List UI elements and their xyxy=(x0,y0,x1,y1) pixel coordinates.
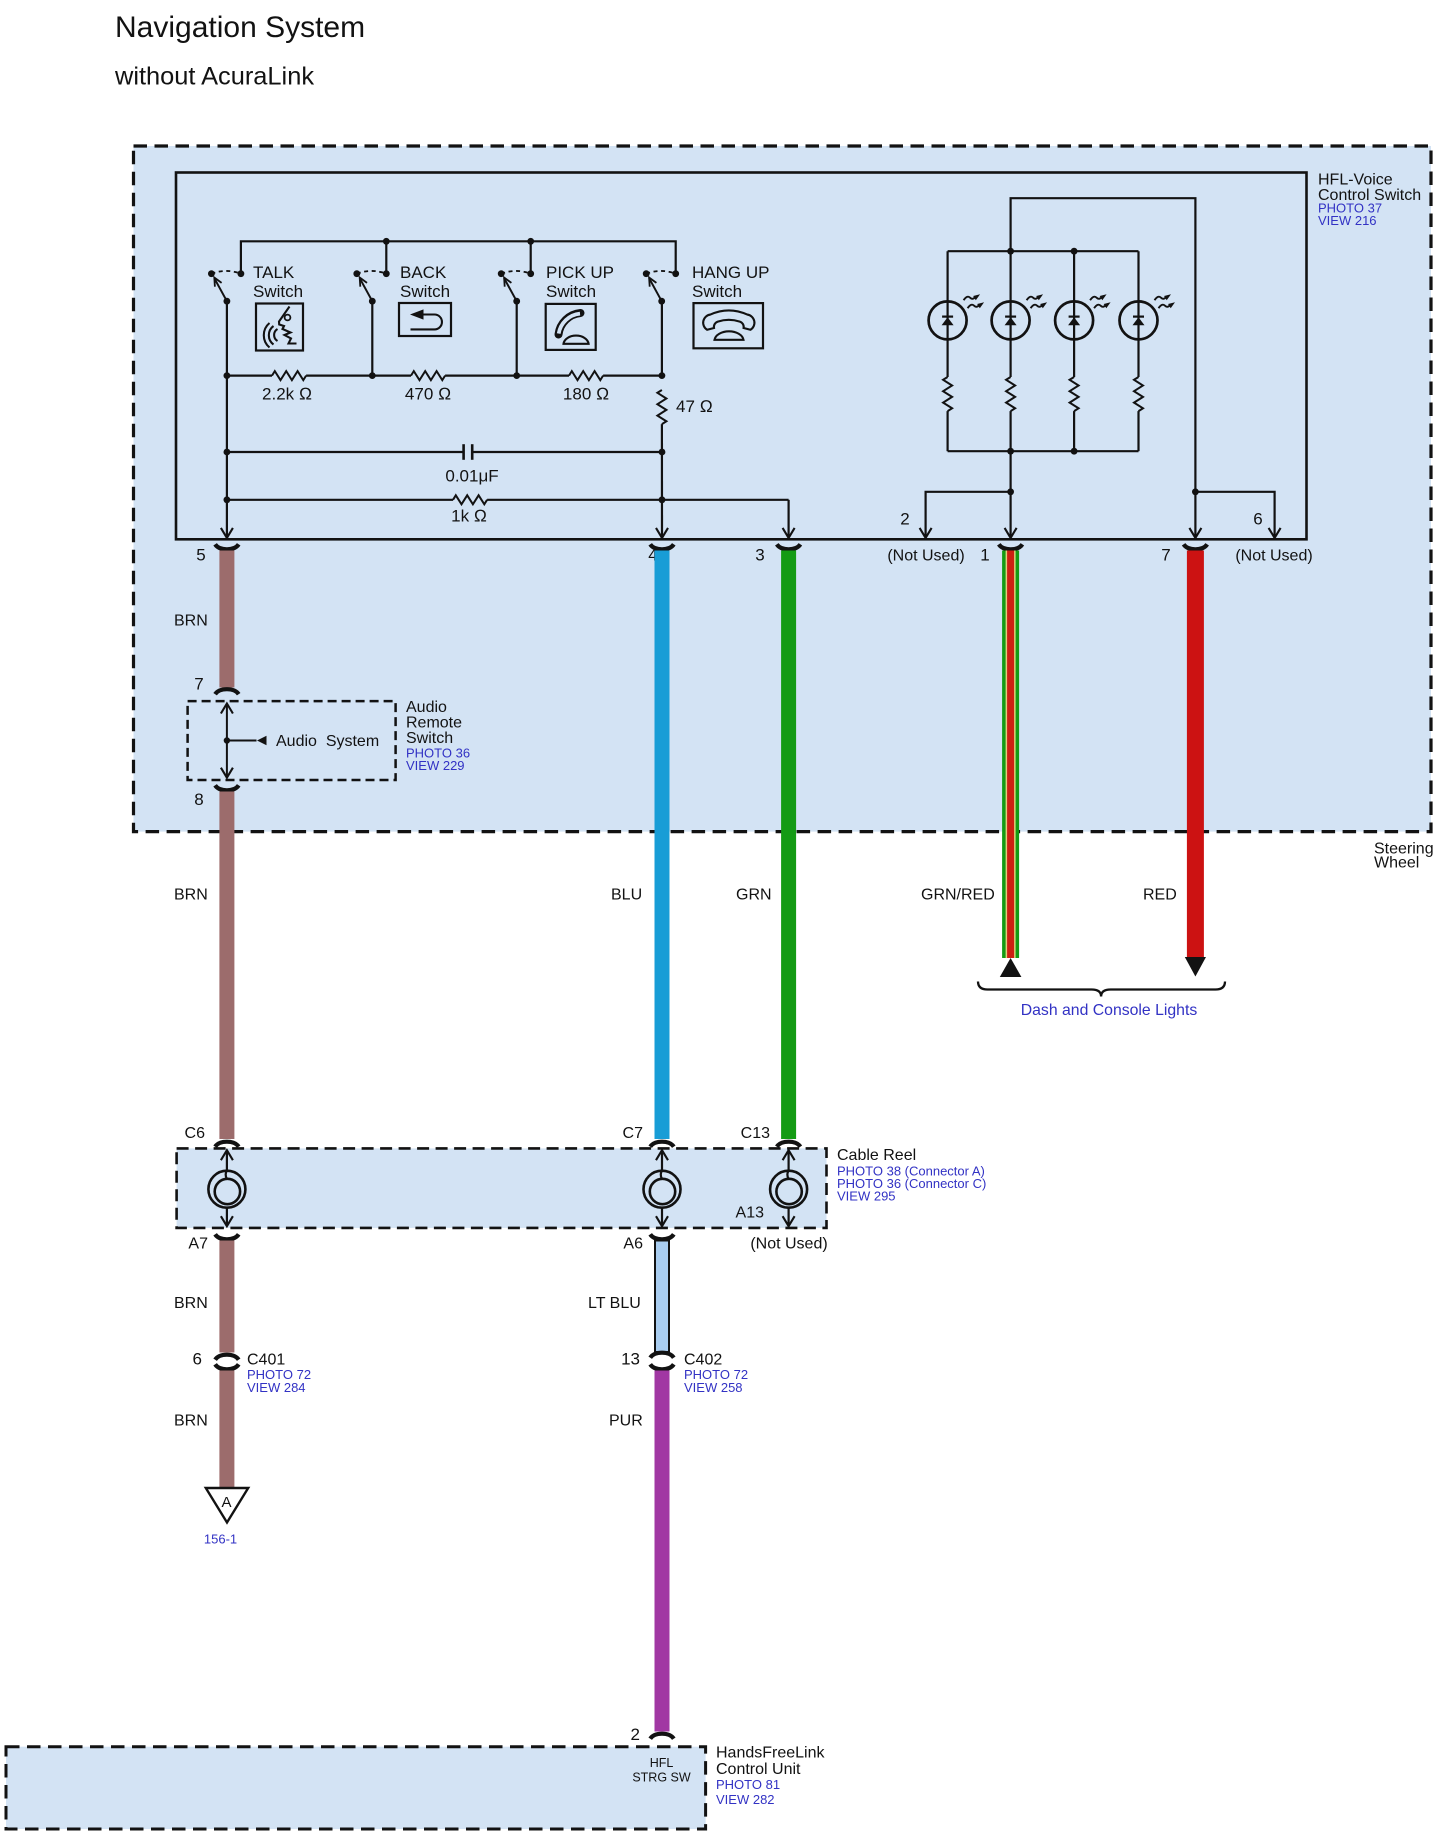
svg-text:8: 8 xyxy=(194,790,203,809)
wire BRN segment 3 xyxy=(219,1241,234,1353)
svg-text:TALK: TALK xyxy=(253,263,295,282)
svg-text:47 Ω: 47 Ω xyxy=(676,397,713,416)
wire LT BLU xyxy=(655,1241,669,1353)
wire pin4 column xyxy=(661,424,663,537)
wire LED feed top xyxy=(1011,198,1196,537)
connector cap A7 xyxy=(215,1234,239,1239)
svg-text:C13: C13 xyxy=(741,1125,770,1142)
connector cap pin2 HFL xyxy=(650,1734,674,1739)
svg-text:C401: C401 xyxy=(247,1352,285,1369)
svg-text:PHOTO 81: PHOTO 81 xyxy=(716,1777,780,1792)
svg-text:Audio System: Audio System xyxy=(276,733,379,750)
svg-text:C402: C402 xyxy=(684,1352,722,1369)
svg-text:BLU: BLU xyxy=(611,887,642,904)
wire PUR xyxy=(655,1371,670,1732)
connector cap pin3 xyxy=(777,544,801,549)
connector cap A6 xyxy=(650,1234,674,1239)
svg-text:VIEW 258: VIEW 258 xyxy=(684,1380,743,1395)
svg-text:1: 1 xyxy=(980,546,989,565)
svg-text:Remote: Remote xyxy=(406,715,462,732)
LED 1 with resistor xyxy=(929,251,985,451)
junction on top bus at PICK UP xyxy=(527,238,534,245)
resistor bus wire xyxy=(227,375,662,377)
connector cap pin4 xyxy=(650,544,674,549)
svg-text:VIEW 282: VIEW 282 xyxy=(716,1792,775,1807)
svg-text:STRG SW: STRG SW xyxy=(632,1771,691,1785)
capacitor 0.01uF xyxy=(227,451,662,453)
connector cap 8 audio xyxy=(215,785,239,790)
audio system link arrows xyxy=(226,704,228,778)
svg-text:VIEW 229: VIEW 229 xyxy=(406,758,465,773)
svg-text:1k Ω: 1k Ω xyxy=(451,507,487,526)
svg-text:RED: RED xyxy=(1143,887,1177,904)
resistor 47 vertical xyxy=(657,390,666,424)
steering wheel dashed box xyxy=(134,146,1432,832)
wire PICK UP column down xyxy=(516,301,518,375)
svg-text:C6: C6 xyxy=(185,1125,206,1142)
svg-text:Switch: Switch xyxy=(400,282,450,301)
svg-text:GRN: GRN xyxy=(736,887,772,904)
icon hang up xyxy=(694,303,764,348)
connector cap pin5 xyxy=(215,544,239,549)
wire TALK column down xyxy=(226,301,228,375)
svg-text:A6: A6 xyxy=(623,1236,643,1253)
svg-text:156-1: 156-1 xyxy=(204,1532,237,1547)
svg-text:Wheel: Wheel xyxy=(1374,855,1419,872)
wire RED xyxy=(1187,551,1204,958)
svg-text:BRN: BRN xyxy=(174,613,208,630)
svg-text:BRN: BRN xyxy=(174,1295,208,1312)
svg-text:C7: C7 xyxy=(623,1125,644,1142)
svg-text:A7: A7 xyxy=(188,1236,208,1253)
svg-text:(Not Used): (Not Used) xyxy=(1235,548,1312,565)
handsfreelink control unit dashed box xyxy=(6,1747,706,1829)
svg-text:HFL-Voice: HFL-Voice xyxy=(1318,172,1393,189)
wire LED anode bus xyxy=(948,250,1139,252)
brace dash and console lights xyxy=(978,982,1225,997)
arrow pin5 xyxy=(221,528,233,538)
svg-text:BRN: BRN xyxy=(174,1413,208,1430)
LED 2 with resistor xyxy=(992,251,1048,451)
LED 4 with resistor xyxy=(1120,251,1176,451)
connector C402 xyxy=(650,1353,674,1358)
icon back xyxy=(399,303,451,336)
arrow pin4 xyxy=(656,528,668,538)
wire GRN/RED xyxy=(1002,551,1019,959)
svg-text:7: 7 xyxy=(1161,546,1170,565)
svg-text:7: 7 xyxy=(194,675,203,694)
svg-text:PICK UP: PICK UP xyxy=(546,263,614,282)
resistor 470 xyxy=(411,371,445,380)
wire top bus xyxy=(241,241,676,273)
svg-text:180 Ω: 180 Ω xyxy=(563,385,609,404)
wire left column pin5 xyxy=(226,376,228,538)
wire BRN segment 1 xyxy=(219,551,234,688)
junction dots on resistor bus xyxy=(224,372,231,379)
audio remote switch dashed box xyxy=(188,701,396,780)
svg-text:LT BLU: LT BLU xyxy=(588,1295,641,1312)
wire BRN segment 4 xyxy=(219,1371,234,1489)
resistor 2.2k xyxy=(272,371,306,380)
arrow pin7 xyxy=(1189,528,1201,538)
svg-text:VIEW 284: VIEW 284 xyxy=(247,1380,306,1395)
svg-text:Navigation System: Navigation System xyxy=(115,11,365,44)
svg-text:2: 2 xyxy=(631,1725,640,1744)
svg-text:Audio: Audio xyxy=(406,699,447,716)
coil C6-A7 xyxy=(208,1171,245,1208)
svg-text:13: 13 xyxy=(621,1350,640,1369)
resistor 180 xyxy=(569,371,603,380)
svg-text:Switch: Switch xyxy=(546,282,596,301)
svg-text:VIEW 295: VIEW 295 xyxy=(837,1189,896,1204)
svg-text:2: 2 xyxy=(900,510,909,529)
connector cap C6 xyxy=(215,1142,239,1147)
svg-text:VIEW 216: VIEW 216 xyxy=(1318,213,1377,228)
connector cap pin7 xyxy=(1184,544,1208,549)
svg-text:Dash and Console Lights: Dash and Console Lights xyxy=(1021,1002,1198,1019)
svg-text:3: 3 xyxy=(755,546,764,565)
svg-text:HandsFreeLink: HandsFreeLink xyxy=(716,1745,826,1762)
svg-text:470 Ω: 470 Ω xyxy=(405,385,451,404)
connector cap pin1 xyxy=(999,544,1023,549)
connector C401 xyxy=(215,1355,239,1360)
svg-text:without AcuraLink: without AcuraLink xyxy=(114,63,314,91)
svg-text:Control Unit: Control Unit xyxy=(716,1761,801,1778)
svg-text:PUR: PUR xyxy=(609,1413,643,1430)
connector cap C13 xyxy=(777,1142,801,1147)
arrow pin3 xyxy=(783,528,795,538)
wire BRN segment 2 xyxy=(219,792,234,1140)
HFL-voice control switch box xyxy=(176,173,1307,540)
switch PICK UP xyxy=(498,270,534,304)
switch TALK xyxy=(208,270,244,304)
wire pin3 drop xyxy=(787,500,789,538)
cable reel dashed box xyxy=(177,1148,827,1228)
svg-text:(Not Used): (Not Used) xyxy=(887,548,964,565)
coil C13-A13 xyxy=(770,1171,807,1208)
coil C7-A6 xyxy=(644,1171,681,1208)
svg-text:2.2k Ω: 2.2k Ω xyxy=(262,385,312,404)
arrow from dash lights (down triangle) xyxy=(1185,957,1206,977)
wire BACK column down xyxy=(371,301,373,375)
svg-text:HANG UP: HANG UP xyxy=(692,263,769,282)
connector cap C7 xyxy=(650,1142,674,1147)
switch HANG UP xyxy=(643,270,679,304)
svg-text:A: A xyxy=(221,1494,231,1511)
svg-text:Switch: Switch xyxy=(253,282,303,301)
icon pick up xyxy=(546,304,596,350)
svg-text:0.01μF: 0.01μF xyxy=(445,467,498,486)
svg-text:Cable Reel: Cable Reel xyxy=(837,1147,916,1164)
svg-text:5: 5 xyxy=(196,546,205,565)
junction on top bus at BACK xyxy=(383,238,390,245)
svg-text:HFL: HFL xyxy=(650,1756,674,1770)
svg-text:Switch: Switch xyxy=(692,282,742,301)
wire BLU xyxy=(655,551,670,1140)
arrow to dash lights (up triangle) xyxy=(1000,958,1022,977)
wire pin1 column xyxy=(1009,451,1011,537)
connector cap 7 audio xyxy=(215,689,239,694)
wire GRN xyxy=(781,551,796,1140)
ground symbol A xyxy=(206,1488,248,1523)
svg-text:BRN: BRN xyxy=(174,887,208,904)
switch BACK xyxy=(353,270,389,304)
wire pin6 branch (not used) xyxy=(1195,492,1274,538)
icon talk xyxy=(256,304,303,351)
wire HANG UP column down xyxy=(661,301,663,375)
LED 3 with resistor xyxy=(1055,251,1111,451)
wire pin2 branch (not used) xyxy=(926,492,1011,538)
svg-text:(Not Used): (Not Used) xyxy=(750,1236,827,1253)
svg-text:6: 6 xyxy=(193,1350,202,1369)
resistor 1k row xyxy=(227,499,789,501)
svg-text:6: 6 xyxy=(1253,510,1262,529)
svg-text:GRN/RED: GRN/RED xyxy=(921,887,995,904)
svg-text:Switch: Switch xyxy=(406,730,453,747)
svg-text:A13: A13 xyxy=(736,1205,765,1222)
svg-text:BACK: BACK xyxy=(400,263,447,282)
wire LED cathode bus xyxy=(948,450,1139,452)
